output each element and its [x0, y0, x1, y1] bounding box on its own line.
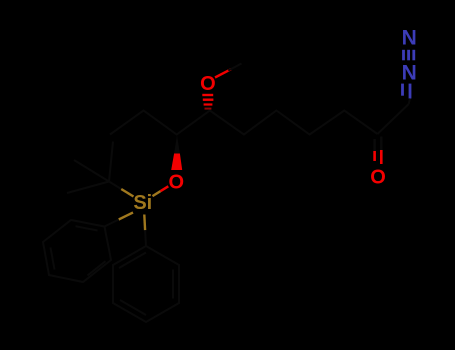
- diazo C=N double bond, dark lower stub: [409, 99, 410, 105]
- wire: bond carbonyl C to diazo C: [378, 104, 409, 134]
- wire: O-Si bond, red half then olive half: [160, 186, 168, 191]
- node A: methoxy methyl bond (O-CH3), red half near O: [215, 69, 231, 77]
- wire: Si to phenyl ring A ipso, olive then dark: [119, 213, 133, 220]
- phenyl ring B outline: [113, 246, 179, 322]
- tBu methyl 3 (down-left): [67, 182, 109, 194]
- phenyl ring B inner double bonds: [119, 253, 173, 316]
- tBu methyl 2 (up-left): [74, 160, 109, 182]
- svg-text:N: N: [402, 26, 417, 49]
- wire: Si to phenyl ring B ipso, olive then dark: [143, 215, 146, 231]
- tBu methyl 1 (up): [109, 142, 113, 182]
- capacitor-style hashed wedge C1 to OMe (stereo bond): [202, 95, 213, 109]
- solid wedge C2 down to silyl O (stereo bond), dark top half: [174, 136, 180, 154]
- phenyl ring A outline: [43, 220, 111, 282]
- svg-text:N: N: [402, 62, 417, 85]
- svg-text:O: O: [370, 166, 386, 188]
- diazo C=N double bond, blue upper parts: [401, 84, 404, 96]
- svg-text:Si: Si: [133, 192, 152, 214]
- carbonyl C=O double bond, red lower halves: [373, 151, 376, 161]
- svg-text:O: O: [200, 73, 216, 95]
- solid wedge red lower half: [171, 154, 182, 171]
- wire: main carbon chain C4-C3-C2-C1-...-carbonyl C: [110, 111, 378, 135]
- carbonyl C=O double bond, dark upper halves: [373, 139, 375, 151]
- N triple bond N2-N1: three short bars: [404, 50, 414, 61]
- phenyl ring A inner double bonds: [51, 226, 106, 275]
- svg-text:O: O: [169, 171, 185, 193]
- wire: Si to tBu quaternary carbon, olive then dark: [121, 189, 133, 197]
